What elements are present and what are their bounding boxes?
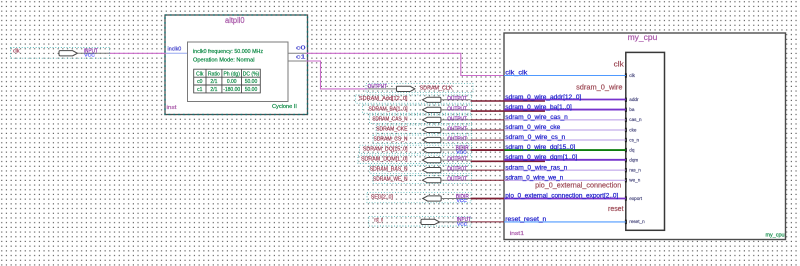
- wire ras_n internal: [504, 169, 626, 171]
- pin SDRAM_Add[12..0]: [356, 95, 472, 103]
- svg-text:VCC: VCC: [456, 150, 467, 156]
- svg-text:OUTPUT: OUTPUT: [447, 167, 467, 173]
- svg-text:OUTPUT: OUTPUT: [447, 136, 467, 142]
- svg-text:sdram_0_wire_dqm[1..0]: sdram_0_wire_dqm[1..0]: [505, 155, 577, 161]
- svg-text:dqm: dqm: [629, 157, 638, 162]
- wire ras_n external: [471, 169, 509, 171]
- svg-text:Ratio: Ratio: [208, 71, 220, 77]
- svg-text:we_n: we_n: [629, 178, 640, 183]
- svg-text:cke: cke: [629, 127, 637, 132]
- wire cas_n internal: [504, 119, 626, 121]
- svg-text:reset_n: reset_n: [629, 219, 645, 224]
- pin SDRAM_CS_N: [373, 135, 472, 143]
- svg-text:export: export: [629, 196, 642, 201]
- svg-text:Clk: Clk: [196, 71, 204, 77]
- svg-text:altpll0: altpll0: [225, 16, 245, 25]
- svg-text:sdram_0_wire: sdram_0_wire: [576, 84, 623, 91]
- svg-text:2/1: 2/1: [210, 87, 217, 93]
- pin SDRAM_DQ[15..0]: [360, 145, 472, 155]
- svg-text:0.00: 0.00: [227, 79, 237, 85]
- svg-text:sdram_0_wire_addr[12..0]: sdram_0_wire_addr[12..0]: [505, 95, 581, 101]
- svg-text:SDRAM_DQ[15..0]: SDRAM_DQ[15..0]: [363, 146, 408, 152]
- pin SDRAM_DQM[1..0]: [358, 155, 472, 163]
- wire export external: [471, 198, 505, 200]
- svg-text:rst_n: rst_n: [374, 217, 383, 223]
- wire addr external: [471, 100, 545, 102]
- svg-text:VCC: VCC: [457, 222, 468, 228]
- svg-text:clk: clk: [13, 48, 20, 54]
- wire dqm external: [471, 160, 545, 162]
- svg-text:OUTPUT: OUTPUT: [368, 84, 388, 90]
- block my_cpu: [504, 33, 786, 240]
- wire dq external: [471, 149, 505, 151]
- wire ba internal: [504, 109, 626, 111]
- svg-text:sdram_0_wire_we_n: sdram_0_wire_we_n: [505, 175, 563, 181]
- port stubs on inner box edge: [625, 73, 627, 224]
- pin SDRAM_CAS_N: [369, 115, 471, 123]
- svg-text:cs_n: cs_n: [629, 137, 639, 142]
- svg-text:SEG[2..0]: SEG[2..0]: [371, 194, 394, 200]
- svg-text:my_cpu: my_cpu: [766, 232, 785, 238]
- svg-text:Ph (dg): Ph (dg): [223, 71, 240, 77]
- svg-text:OUTPUT: OUTPUT: [447, 157, 467, 163]
- pin SDRAM_CKE: [376, 125, 471, 133]
- wire reset internal: [504, 221, 626, 223]
- bidir pin SEG[2..0]: [367, 192, 471, 204]
- input pin clk: [11, 48, 110, 59]
- svg-text:OUTPUT: OUTPUT: [447, 96, 467, 102]
- svg-text:addr: addr: [629, 97, 639, 102]
- svg-text:sdram_0_wire_cas_n: sdram_0_wire_cas_n: [505, 115, 568, 121]
- wire export internal: [504, 198, 626, 200]
- wire cas_n external: [471, 119, 509, 121]
- pin stub c0: [288, 46, 306, 54]
- pin stub inclk0: [166, 46, 188, 53]
- svg-text:sdram_0_wire_ras_n: sdram_0_wire_ras_n: [505, 165, 567, 171]
- svg-text:OUTPUT: OUTPUT: [447, 106, 467, 112]
- svg-text:cas_n: cas_n: [629, 117, 642, 122]
- svg-text:SDRAM_RAS_N: SDRAM_RAS_N: [370, 167, 408, 173]
- wire reset external: [471, 221, 504, 223]
- op-amp-style PLL block altpll0: [165, 15, 308, 115]
- svg-text:ras_n: ras_n: [629, 167, 641, 172]
- svg-text:inst: inst: [167, 105, 178, 111]
- my_cpu inner port box: [626, 52, 665, 230]
- svg-text:2/1: 2/1: [210, 79, 217, 85]
- PLL properties box: [188, 42, 289, 102]
- svg-text:sdram_0_wire_cs_n: sdram_0_wire_cs_n: [505, 135, 565, 141]
- wire dq internal: [504, 149, 625, 151]
- svg-text:sdram_0_wire_dq[15..0]: sdram_0_wire_dq[15..0]: [505, 145, 575, 151]
- svg-text:Operation Mode: Normal: Operation Mode: Normal: [193, 58, 255, 64]
- svg-text:VCC: VCC: [457, 198, 468, 204]
- svg-text:reset: reset: [608, 206, 624, 213]
- svg-text:SDRAM_CAS_N: SDRAM_CAS_N: [372, 116, 407, 122]
- svg-text:SDRAM_DQM[1..0]: SDRAM_DQM[1..0]: [361, 157, 408, 163]
- wire dqm internal: [504, 159, 626, 161]
- svg-text:VCC: VCC: [84, 53, 95, 59]
- svg-text:DC (%): DC (%): [243, 71, 260, 77]
- wire addr internal: [504, 99, 626, 101]
- wire cke internal: [504, 129, 626, 131]
- svg-text:-180.00: -180.00: [223, 87, 240, 93]
- svg-text:my_cpu: my_cpu: [628, 33, 658, 42]
- svg-text:dq: dq: [629, 147, 635, 152]
- wire c1 to SDRAM_CLK pin: [306, 61, 367, 89]
- wire cs_n internal: [504, 139, 626, 141]
- selection box around altpll0: [165, 15, 308, 115]
- svg-text:pio_0_external_connection_expo: pio_0_external_connection_export[2..0]: [505, 194, 618, 200]
- wire ba external: [471, 110, 545, 112]
- wire cs_n external: [471, 139, 509, 141]
- svg-text:ba: ba: [629, 107, 635, 112]
- PLL clock table: [194, 69, 261, 93]
- output pin SDRAM_CLK: [366, 84, 473, 93]
- svg-text:OUTPUT: OUTPUT: [447, 126, 467, 132]
- pin SDRAM_WE_N: [373, 175, 472, 183]
- svg-text:50.00: 50.00: [245, 79, 258, 85]
- svg-text:SDRAM_CS_N: SDRAM_CS_N: [374, 136, 408, 142]
- wire clk_clk: [504, 75, 626, 77]
- pin stub c1: [288, 54, 306, 61]
- wire we_n external: [471, 179, 509, 181]
- input pin rst_n: [369, 217, 471, 228]
- svg-text:OUTPUT: OUTPUT: [447, 177, 467, 183]
- svg-text:SDRAM_BA[1..0]: SDRAM_BA[1..0]: [369, 106, 409, 112]
- svg-text:50.00: 50.00: [245, 87, 258, 93]
- svg-text:inclk0: inclk0: [168, 46, 182, 52]
- svg-text:SDRAM_Add[12..0]: SDRAM_Add[12..0]: [359, 96, 408, 102]
- wire cke external: [471, 129, 509, 131]
- svg-text:c1: c1: [197, 87, 203, 93]
- svg-text:inclk0 frequency: 50.000 MHz: inclk0 frequency: 50.000 MHz: [193, 49, 263, 55]
- svg-text:clk: clk: [629, 73, 635, 78]
- wire c0 to my_cpu clk: [306, 53, 504, 75]
- svg-text:SDRAM_CLK: SDRAM_CLK: [420, 85, 453, 91]
- svg-text:c0: c0: [197, 79, 203, 85]
- svg-text:OUTPUT: OUTPUT: [447, 116, 467, 122]
- pin SDRAM_BA[1..0]: [363, 105, 472, 113]
- svg-text:clk: clk: [614, 62, 625, 69]
- wire clk to altpll0: [110, 52, 166, 54]
- svg-text:SDRAM_WE_N: SDRAM_WE_N: [373, 177, 408, 183]
- svg-text:pio_0_external_connection: pio_0_external_connection: [535, 182, 621, 189]
- svg-text:sdram_0_wire_cke: sdram_0_wire_cke: [505, 125, 561, 131]
- svg-text:sdram_0_wire_ba[1..0]: sdram_0_wire_ba[1..0]: [505, 105, 572, 111]
- svg-text:inst1: inst1: [510, 231, 524, 237]
- svg-text:Cyclone II: Cyclone II: [272, 104, 297, 110]
- svg-text:c1: c1: [296, 54, 306, 60]
- pin SDRAM_RAS_N: [370, 165, 472, 173]
- svg-text:SDRAM_CKE: SDRAM_CKE: [376, 126, 408, 132]
- svg-text:reset_reset_n: reset_reset_n: [505, 217, 546, 223]
- wire we_n internal: [504, 179, 626, 181]
- svg-text:c0: c0: [296, 46, 306, 52]
